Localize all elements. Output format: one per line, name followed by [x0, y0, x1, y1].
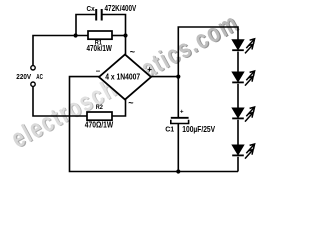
svg-text:~: ~ — [130, 47, 135, 57]
bridge rectifier 4 x 1N4007 — [99, 55, 151, 100]
wire: C1 bottom lead to bottom rail — [177, 124, 179, 172]
terminal: 220V AC top — [31, 66, 35, 70]
LED D3 — [232, 107, 254, 122]
svg-text:~: ~ — [128, 98, 133, 108]
wire: Cx loop top right segment and right vertical — [103, 15, 126, 36]
svg-text:472K/400V: 472K/400V — [105, 4, 137, 13]
svg-text:4 x 1N4007: 4 x 1N4007 — [105, 72, 140, 81]
wire: LED D3 to D4 — [237, 120, 239, 145]
wire: bridge minus output, left vertical and bottom rail — [70, 77, 239, 172]
wire: node C up and across to LED string anode — [178, 27, 238, 77]
svg-text:Cx: Cx — [87, 4, 96, 13]
LED D1 — [232, 39, 254, 54]
wire: R2 right lead up to bridge AC input bottom — [112, 100, 126, 117]
wire: node B down to bridge AC input top — [125, 36, 127, 55]
svg-text:470k/1W: 470k/1W — [87, 44, 113, 53]
wire: Cx loop left vertical and top left segment — [76, 15, 95, 36]
terminal: 220V AC bottom — [31, 82, 35, 86]
watermark electroschematics.com — [6, 7, 244, 154]
wire: LED D1 to D2 — [237, 52, 239, 73]
svg-text:220V: 220V — [16, 72, 31, 81]
wire: LED D4 cathode to bottom rail — [237, 157, 239, 172]
node D (junction dot at bottom rail) — [176, 169, 180, 173]
svg-text:AC: AC — [36, 72, 43, 81]
resistor R1 — [88, 31, 112, 39]
svg-text:–: – — [96, 67, 101, 76]
wire: node C down to C1 top plate — [177, 77, 179, 117]
svg-text:+: + — [180, 110, 184, 116]
wire: R1 right lead — [112, 35, 126, 37]
LED D4 — [232, 144, 254, 159]
capacitor Cx — [96, 9, 102, 21]
svg-text:C1: C1 — [165, 124, 174, 133]
node A (junction dot left of R1) — [74, 33, 78, 37]
svg-text:470Ω/1W: 470Ω/1W — [85, 121, 114, 130]
node B (junction dot right of R1) — [123, 33, 127, 37]
LED D2 — [232, 71, 254, 86]
svg-text:+: + — [147, 65, 152, 74]
wire: 220V AC top terminal to main node — [33, 36, 88, 66]
wire: bridge plus output to node C — [151, 76, 178, 78]
resistor R2 — [87, 112, 112, 120]
wire: 220V AC bottom terminal to R2 left lead — [33, 87, 87, 116]
svg-text:100µF/25V: 100µF/25V — [182, 125, 215, 134]
node C (junction dot at C1 top) — [176, 75, 180, 79]
capacitor C1 — [171, 118, 189, 124]
wire: LED D2 to D3 — [237, 84, 239, 108]
svg-text:R2: R2 — [96, 104, 103, 111]
